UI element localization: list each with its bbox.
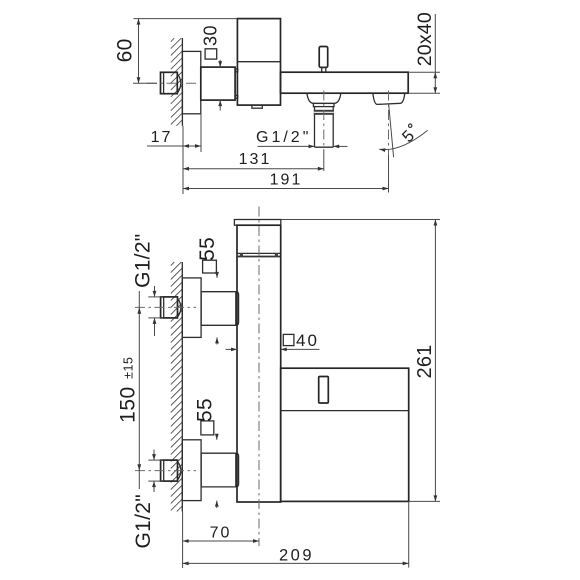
dimension 70 (bottom view) bbox=[183, 525, 259, 542]
dimension square 55 lower (bottom view) bbox=[194, 398, 217, 508]
dimension 209 (bottom view) bbox=[183, 547, 409, 565]
svg-text:G1/2": G1/2" bbox=[132, 494, 155, 548]
nipple centerline (top view) bbox=[147, 82, 196, 84]
extension ticks lower nipple bbox=[148, 459, 163, 461]
vertical bar 20x40 (bottom view) bbox=[237, 225, 281, 502]
svg-text:261: 261 bbox=[414, 345, 436, 379]
spout nozzle centerline / 191 extension bbox=[388, 91, 390, 156]
lower escutcheon plate 55x55 (bottom view) bbox=[182, 440, 201, 501]
wall face line (bottom view) bbox=[181, 262, 183, 512]
dimension square 30 (top view) bbox=[201, 25, 221, 111]
plate front extension line (top view) bbox=[200, 114, 202, 152]
wall face extension line (top view) bbox=[182, 126, 184, 194]
shower hose outlet funnel (top view) bbox=[307, 93, 341, 103]
svg-text:G1/2": G1/2" bbox=[256, 129, 311, 146]
svg-text:150: 150 bbox=[117, 386, 140, 423]
handle lever (top view) bbox=[319, 47, 328, 73]
upper mounting block (bottom view) bbox=[201, 292, 239, 326]
svg-text:131: 131 bbox=[239, 151, 272, 168]
extension line body right to 209 (bottom view) bbox=[408, 501, 410, 567]
shower outlet centerline bbox=[323, 91, 325, 151]
dimension square 40 (bottom view) bbox=[226, 331, 320, 350]
dimension 60 (top view) bbox=[114, 19, 238, 84]
main mixer body (top view) bbox=[237, 19, 280, 109]
lower nipple centerline bbox=[135, 470, 196, 472]
upper inlet nipple G1/2 (bottom view) bbox=[161, 297, 181, 318]
handle slot front view bbox=[319, 377, 329, 404]
svg-text:60: 60 bbox=[114, 38, 137, 62]
svg-text:191: 191 bbox=[270, 172, 303, 189]
spout bar 20x40 profile (top view) bbox=[281, 72, 409, 93]
dimension square 55 upper (bottom view) bbox=[196, 237, 219, 345]
dimension G1/2 lower (bottom view) bbox=[132, 450, 155, 549]
shower outlet threaded tube bbox=[314, 107, 334, 148]
spout nozzle with 5 deg cut (top view) bbox=[373, 93, 405, 104]
svg-text:55: 55 bbox=[196, 237, 219, 261]
dimension 261 (bottom view) bbox=[281, 220, 440, 502]
wall hatching (top view) bbox=[171, 38, 183, 126]
upper nipple centerline bbox=[135, 306, 196, 308]
dimension 150 +-15 (bottom view) bbox=[117, 291, 142, 489]
dimension 17 (top view) bbox=[147, 129, 201, 146]
5 deg slanted axis line bbox=[389, 105, 394, 158]
mixer body front view bbox=[281, 368, 409, 501]
svg-text:20x40: 20x40 bbox=[414, 12, 436, 66]
dimension G1/2 (top view shower outlet) bbox=[256, 129, 348, 147]
dimension 131 (top view) bbox=[183, 151, 324, 169]
svg-text:G1/2": G1/2" bbox=[131, 233, 154, 287]
square body section 30x30 (top view) bbox=[201, 67, 238, 100]
shower outlet flange bbox=[313, 103, 334, 106]
wall hatching (bottom view) bbox=[171, 262, 183, 512]
wall escutcheon plate (top view, 17 deep) bbox=[182, 51, 200, 113]
extension ticks upper nipple bbox=[148, 296, 163, 298]
inlet nipple G1/2 (top view) bbox=[161, 72, 181, 93]
svg-text:17: 17 bbox=[151, 129, 173, 146]
svg-text:30: 30 bbox=[201, 25, 221, 46]
svg-text:209: 209 bbox=[279, 547, 314, 565]
svg-text:±15: ±15 bbox=[121, 357, 135, 379]
bar seam joint lines bbox=[237, 253, 281, 256]
svg-text:40: 40 bbox=[296, 331, 319, 350]
vertical bar end cap (bottom view) bbox=[234, 220, 280, 226]
svg-text:55: 55 bbox=[194, 398, 217, 422]
wall face line (top view) bbox=[181, 38, 183, 126]
dimension 191 (top view) bbox=[183, 172, 389, 189]
lower mounting block (bottom view) bbox=[201, 453, 239, 487]
extension line wall face to 209 (bottom view) bbox=[182, 512, 184, 569]
svg-text:70: 70 bbox=[210, 525, 232, 542]
dimension 20x40 (top view) bbox=[408, 12, 440, 93]
bar centerline (bottom view) bbox=[258, 207, 260, 547]
upper escutcheon plate 55x55 (bottom view) bbox=[182, 278, 201, 338]
lower inlet nipple G1/2 (bottom view) bbox=[161, 460, 181, 481]
5 deg angle arc with arrow bbox=[379, 130, 427, 149]
dimension G1/2 upper (bottom view) bbox=[131, 233, 154, 336]
